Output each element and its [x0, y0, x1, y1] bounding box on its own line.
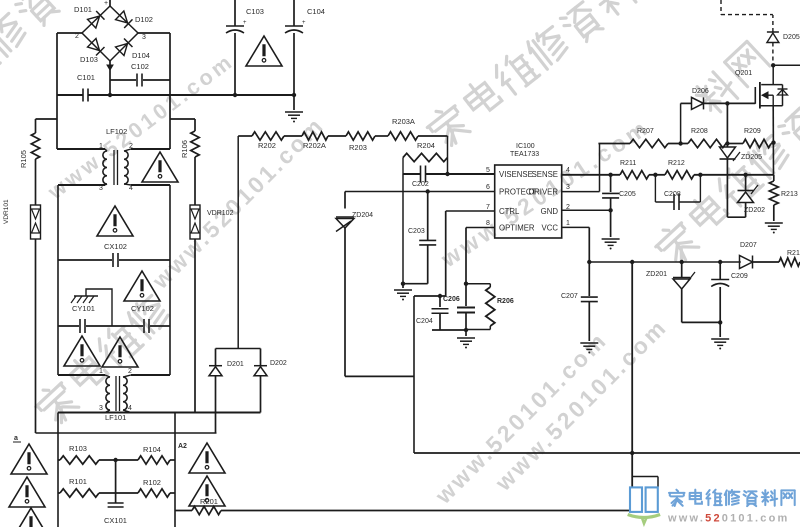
- svg-text:D103: D103: [80, 55, 98, 64]
- svg-text:+: +: [302, 20, 306, 26]
- svg-text:R21: R21: [787, 250, 800, 257]
- svg-text:CX101: CX101: [104, 516, 127, 525]
- svg-text:8: 8: [486, 220, 490, 227]
- svg-text:D205: D205: [783, 34, 800, 41]
- svg-text:R212: R212: [668, 160, 685, 167]
- svg-text:R105: R105: [19, 150, 28, 168]
- svg-text:DRIVER: DRIVER: [529, 188, 559, 197]
- svg-text:R209: R209: [744, 128, 761, 135]
- svg-text:7: 7: [486, 204, 490, 211]
- svg-text:4: 4: [128, 405, 132, 412]
- svg-text:VISENSE: VISENSE: [499, 170, 533, 179]
- svg-text:C203: C203: [408, 228, 425, 235]
- svg-text:4: 4: [129, 185, 133, 192]
- svg-text:www.520101.com: www.520101.com: [667, 513, 790, 525]
- svg-text:R206: R206: [497, 298, 514, 305]
- svg-text:1: 1: [99, 143, 103, 150]
- svg-text:C208: C208: [664, 191, 681, 198]
- svg-text:A2: A2: [178, 443, 187, 450]
- svg-text:C202: C202: [412, 181, 429, 188]
- svg-text:1: 1: [99, 368, 103, 375]
- svg-text:VDR102: VDR102: [207, 210, 234, 217]
- svg-text:R101: R101: [69, 477, 87, 486]
- svg-text:D202: D202: [270, 360, 287, 367]
- svg-text:D206: D206: [692, 88, 709, 95]
- svg-text:3: 3: [99, 185, 103, 192]
- svg-text:LF101: LF101: [105, 413, 126, 422]
- svg-text:5: 5: [486, 167, 490, 174]
- svg-text:C206: C206: [443, 296, 460, 303]
- svg-text:SENSE: SENSE: [532, 170, 558, 179]
- svg-text:1: 1: [566, 220, 570, 227]
- svg-text:VCC: VCC: [542, 224, 559, 233]
- svg-text:C204: C204: [416, 318, 433, 325]
- svg-text:Q201: Q201: [735, 70, 752, 77]
- svg-text:3: 3: [99, 405, 103, 412]
- svg-text:R203A: R203A: [392, 117, 415, 126]
- svg-text:OPTIMER: OPTIMER: [499, 224, 535, 233]
- svg-text:+: +: [104, 0, 108, 7]
- svg-text:R104: R104: [143, 445, 161, 454]
- svg-text:2: 2: [128, 368, 132, 375]
- svg-text:CTRL: CTRL: [499, 207, 520, 216]
- svg-text:D104: D104: [132, 51, 150, 60]
- svg-text:6: 6: [486, 184, 490, 191]
- svg-text:R106: R106: [180, 140, 189, 158]
- svg-text:2: 2: [75, 33, 79, 40]
- svg-text:R211: R211: [620, 160, 636, 167]
- svg-text:D207: D207: [740, 242, 757, 249]
- svg-text:C102: C102: [131, 62, 149, 71]
- svg-text:D201: D201: [227, 361, 244, 368]
- svg-text:C101: C101: [77, 73, 95, 82]
- svg-text:a: a: [14, 435, 18, 442]
- svg-text:CY101: CY101: [72, 304, 95, 313]
- svg-text:4: 4: [566, 167, 570, 174]
- svg-text:C104: C104: [307, 7, 325, 16]
- svg-text:R202: R202: [258, 141, 276, 150]
- svg-text:GND: GND: [541, 207, 559, 216]
- svg-text:R208: R208: [691, 128, 708, 135]
- svg-text:C103: C103: [246, 7, 264, 16]
- svg-text:IC100: IC100: [516, 143, 535, 150]
- svg-text:ZD202: ZD202: [744, 207, 765, 214]
- svg-text:TEA1733: TEA1733: [510, 151, 539, 158]
- svg-text:R207: R207: [637, 128, 654, 135]
- svg-text:2: 2: [129, 143, 133, 150]
- svg-text:3: 3: [142, 34, 146, 41]
- svg-text:D101: D101: [74, 5, 92, 14]
- svg-text:CX102: CX102: [104, 242, 127, 251]
- svg-text:R103: R103: [69, 444, 87, 453]
- svg-text:D102: D102: [135, 15, 153, 24]
- svg-text:ZD201: ZD201: [646, 271, 667, 278]
- svg-text:R213: R213: [781, 191, 798, 198]
- svg-text:R102: R102: [143, 478, 161, 487]
- svg-text:ZD205: ZD205: [741, 154, 762, 161]
- svg-text:R202A: R202A: [303, 141, 326, 150]
- svg-text:C207: C207: [561, 293, 578, 300]
- svg-text:ZD204: ZD204: [352, 212, 373, 219]
- svg-text:LF102: LF102: [106, 127, 127, 136]
- svg-text:C209: C209: [731, 273, 748, 280]
- svg-text:3: 3: [566, 184, 570, 191]
- svg-text:VDR101: VDR101: [3, 199, 10, 224]
- svg-text:C205: C205: [619, 191, 636, 198]
- svg-text:CY102: CY102: [131, 304, 154, 313]
- svg-text:+: +: [243, 20, 247, 26]
- svg-text:R204: R204: [417, 141, 435, 150]
- svg-text:R201: R201: [200, 497, 218, 506]
- svg-text:R203: R203: [349, 143, 367, 152]
